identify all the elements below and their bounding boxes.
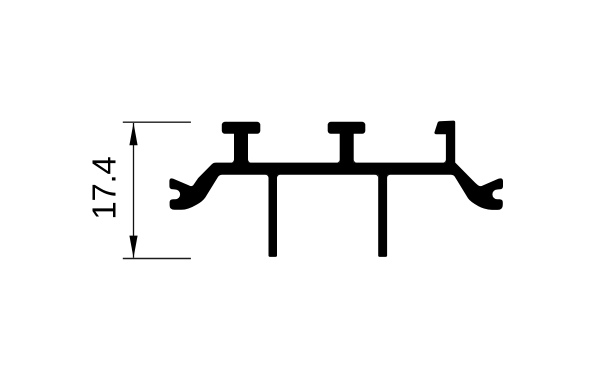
right leg fillet left <box>375 175 378 178</box>
left leg <box>269 170 278 257</box>
right leg <box>378 170 387 257</box>
extension line bottom <box>123 258 191 260</box>
right stem with flag (digit-1 shape) <box>434 121 455 166</box>
middle T stem <box>340 128 354 166</box>
profile main body: bar, sloped arms, left hook claw, right hook claw <box>169 163 503 210</box>
dimension line vertical <box>133 123 135 258</box>
middle T stem-to-bar fillet right <box>354 160 357 163</box>
left leg fillet left <box>265 175 268 178</box>
left T stem-to-bar fillet right <box>248 160 251 163</box>
extension line top <box>123 121 191 123</box>
middle T stem-to-bar fillet left <box>337 160 340 163</box>
left T stem-to-bar fillet left <box>231 160 234 163</box>
arrowhead up <box>129 123 137 145</box>
arrowhead down <box>129 236 137 258</box>
right stem-to-bar fillet left <box>443 160 446 163</box>
left leg fillet right <box>277 175 280 178</box>
right leg fillet right <box>387 175 390 178</box>
left T stem <box>234 128 248 166</box>
svg-text:17.4: 17.4 <box>86 157 123 220</box>
left T cap <box>222 122 260 134</box>
middle T cap <box>328 122 366 134</box>
